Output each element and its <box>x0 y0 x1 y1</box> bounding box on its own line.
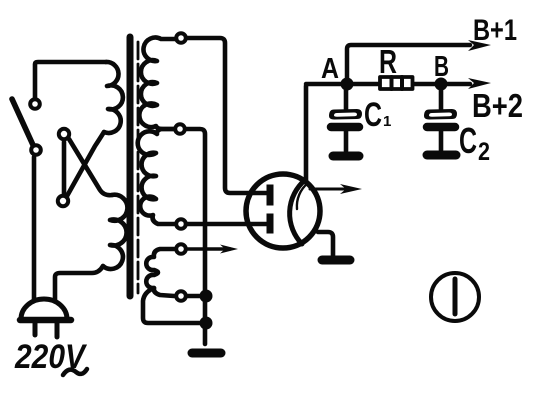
ground symbol (C2) <box>427 151 456 160</box>
svg-text:A: A <box>321 53 339 85</box>
figure number: circled 1 <box>431 273 479 321</box>
voltage selector diagonal (winding top to lower contact) <box>67 132 104 196</box>
capacitor C2 lead from node B <box>439 90 444 109</box>
capacitor C1 lead from node A <box>344 84 349 109</box>
secondary winding section 2 <box>138 129 174 224</box>
label 220V~ <box>14 338 88 376</box>
svg-text:B+1: B+1 <box>473 14 517 47</box>
ground symbol (secondary bus) <box>192 349 221 358</box>
secondary winding section 1 (HV) <box>139 38 176 129</box>
B+1 arrowhead <box>468 40 491 51</box>
wire T1 to tube pin 1 <box>187 38 267 193</box>
voltage selector lower contact <box>58 196 68 206</box>
ground symbol (cathode) <box>322 256 350 265</box>
tube output arrow <box>310 184 362 194</box>
capacitor C1 top plate (outlined) <box>329 109 362 120</box>
wire cathode to ground <box>318 232 333 256</box>
voltage selector link wire <box>62 142 67 194</box>
wire plug left prong to switch <box>32 157 37 301</box>
svg-text:1: 1 <box>383 113 391 130</box>
ground symbol (C1) <box>333 152 359 161</box>
plug P1 (220V mains plug) <box>20 299 71 337</box>
capacitor C2 lead to ground <box>439 131 444 150</box>
transformer primary lower winding <box>103 195 127 269</box>
tube V1 pin-2 electrode bar <box>267 217 274 230</box>
tube V1 pin-1 electrode bar <box>267 188 274 202</box>
capacitor C2 top plate (outlined) <box>424 109 457 120</box>
svg-text:C: C <box>364 96 382 134</box>
tube V1 cathode crescent arc <box>290 180 305 244</box>
transformer core thin lamination line <box>137 42 140 293</box>
node B junction dot <box>435 78 448 91</box>
heater output arrow (from T4) <box>186 245 238 254</box>
junction dot T5/bus <box>200 290 213 303</box>
voltage selector upper contact <box>59 129 69 139</box>
wire anode: node A down to tube top <box>304 86 309 180</box>
switch S1 upper contact <box>30 99 40 109</box>
tube V1 cathode inner thin arc <box>297 183 308 209</box>
secondary tap circle T1 (top) <box>176 33 186 43</box>
svg-text:R: R <box>379 43 397 80</box>
wire node A up to B+1 line <box>347 45 470 82</box>
capacitor C1 bottom plate (solid) <box>331 123 359 132</box>
wire T5 to junction <box>187 294 200 299</box>
wire T2 down bus <box>186 129 205 344</box>
capacitor C2 bottom plate (solid) <box>427 123 455 132</box>
svg-text:B+2: B+2 <box>472 87 523 124</box>
wire T3 to tube pin 2 <box>186 222 267 227</box>
resistor R body <box>380 77 413 89</box>
label C2 <box>459 120 490 166</box>
secondary tap circle T3 <box>176 219 186 229</box>
svg-text:2: 2 <box>478 138 490 166</box>
transformer core thick bar <box>127 37 134 296</box>
svg-text:B: B <box>434 51 449 83</box>
wire secondary bottom end to ground bus <box>143 288 200 323</box>
wire switch to primary top <box>35 62 106 98</box>
switch S1 blade <box>12 99 33 145</box>
svg-text:C: C <box>459 120 477 161</box>
node A junction dot <box>341 78 354 91</box>
B+2 arrowhead <box>468 78 491 89</box>
voltage selector diagonal (upper contact to lower winding) <box>69 139 112 195</box>
secondary winding section 3 (heater) <box>146 249 174 296</box>
transformer primary upper winding <box>104 62 123 133</box>
secondary tap circle T4 <box>176 244 186 254</box>
label C1 <box>364 96 391 134</box>
secondary tap circle T2 <box>175 124 185 134</box>
tube V1 envelope <box>246 174 320 248</box>
junction dot bottom-end/bus <box>200 317 213 330</box>
wire primary return to plug <box>55 266 103 301</box>
capacitor C1 lead to ground <box>344 131 349 151</box>
secondary tap circle T5 (bottom) <box>176 291 186 301</box>
switch S1 lower contact <box>31 145 41 155</box>
main B line (node A to node B to B+2 arrow) <box>306 82 470 87</box>
